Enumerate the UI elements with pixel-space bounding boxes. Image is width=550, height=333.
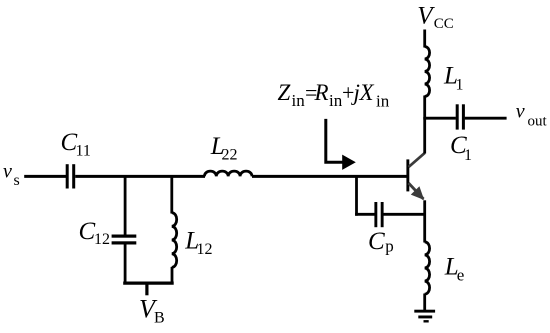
svg-text:v: v: [516, 101, 525, 123]
inductor L1: [425, 47, 430, 97]
svg-text:in: in: [329, 91, 343, 110]
wire Cp right segment to emitter: [384, 213, 427, 216]
label L12: [184, 227, 212, 257]
label C1: [450, 132, 472, 164]
node A (C12 branch junction): [124, 176, 127, 236]
inductor L12: [172, 213, 177, 268]
svg-text:s: s: [14, 172, 20, 189]
transistor Q1 collector diagonal: [409, 153, 425, 167]
svg-text:1: 1: [464, 147, 472, 164]
wire emitter vertical to Le: [423, 200, 426, 242]
svg-text:B: B: [154, 310, 165, 327]
svg-text:p: p: [385, 237, 394, 256]
wire collector vertical: [423, 117, 426, 154]
svg-text:in: in: [376, 91, 390, 110]
label C12: [79, 218, 111, 248]
wire L22 to transistor base: [252, 175, 407, 178]
inductor Le: [425, 242, 430, 294]
wire VCC to L1: [423, 30, 426, 48]
svg-text:11: 11: [76, 143, 91, 160]
label VB: [139, 295, 165, 327]
svg-text:1: 1: [456, 76, 464, 93]
wire VB stub: [145, 283, 148, 295]
capacitor Cp: [374, 202, 383, 227]
capacitor C1: [456, 104, 465, 129]
capacitor C11: [66, 164, 76, 188]
svg-text:12: 12: [94, 231, 110, 248]
svg-text:out: out: [528, 113, 548, 129]
svg-text:v: v: [3, 160, 12, 182]
label Rin: [314, 80, 343, 110]
svg-text:in: in: [292, 91, 306, 110]
label C11: [61, 129, 91, 160]
svg-text:e: e: [457, 265, 465, 284]
label L22: [210, 133, 238, 163]
label Zin: [278, 80, 306, 110]
label vs (source voltage): [3, 160, 20, 189]
inductor L22: [204, 171, 252, 176]
wire C11 to L22: [75, 175, 205, 178]
label L1: [443, 63, 464, 94]
capacitor C12: [112, 235, 137, 245]
label Le: [444, 253, 465, 284]
svg-text:X: X: [359, 80, 375, 105]
node C (Cp branch junction): [355, 176, 358, 216]
wire C1 to vout: [465, 117, 507, 120]
label VCC: [417, 3, 454, 33]
wire Le to ground: [423, 294, 426, 312]
wire input from vs to C11: [24, 175, 66, 178]
transistor Q1 base bar: [406, 159, 409, 191]
svg-text:C: C: [79, 218, 96, 245]
node B (L12 branch junction): [170, 176, 173, 214]
wire Cp left segment: [355, 213, 375, 216]
wire collector node to C1: [425, 117, 456, 120]
wire L1 to collector node: [423, 96, 426, 120]
svg-text:R: R: [314, 80, 329, 105]
svg-text:CC: CC: [434, 16, 454, 32]
transistor Q1 emitter diagonal: [409, 183, 424, 199]
transistor Q1 emitter arrowhead: [411, 186, 424, 200]
label Cp: [368, 228, 394, 256]
arrow Zin pointer: [326, 119, 356, 170]
label vout: [516, 101, 548, 130]
svg-text:V: V: [417, 3, 435, 30]
wire L12 bottom to VB rail: [171, 267, 174, 285]
wire C12 bottom to VB rail: [124, 243, 127, 285]
svg-text:Z: Z: [278, 80, 291, 105]
svg-text:22: 22: [222, 146, 238, 163]
ground: [414, 310, 435, 323]
svg-text:12: 12: [197, 241, 213, 258]
svg-text:C: C: [368, 228, 385, 255]
wire VB bottom rail: [123, 282, 174, 285]
label jXin: [351, 80, 390, 111]
